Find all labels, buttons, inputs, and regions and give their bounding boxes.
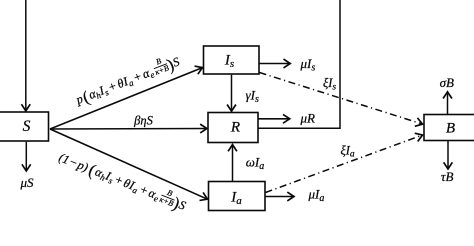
svg-text:R: R <box>230 120 240 136</box>
svg-text:σB: σB <box>440 75 454 90</box>
wire omega Ia from Ia up to R <box>232 144 234 181</box>
label p(ah Is + th Ia + ae B/(k+B))S <box>72 51 183 110</box>
wire from R right up to top (recovery loop) <box>259 0 341 128</box>
box Ia <box>209 182 266 211</box>
wire into S from top <box>25 0 27 111</box>
svg-text:μS: μS <box>19 175 34 190</box>
dash-dot wire xi Is from Is to B <box>260 73 423 125</box>
svg-text:B: B <box>446 120 455 136</box>
svg-text:τB: τB <box>441 169 454 184</box>
box R <box>208 113 258 143</box>
label (1-p)(ah Is + th Ia + ae B/(k+B))S <box>56 146 190 215</box>
svg-text:S: S <box>23 118 31 135</box>
box B <box>424 115 474 141</box>
svg-text:μR: μR <box>300 110 316 125</box>
box S <box>0 112 49 141</box>
wire S to Ia (diagonal down) <box>50 129 208 199</box>
wire gamma Is from Is down to R <box>231 75 233 112</box>
svg-text:μIs: μIs <box>300 56 316 74</box>
svg-text:γIs: γIs <box>246 87 259 105</box>
box Is <box>204 46 260 74</box>
svg-text:βηS: βηS <box>133 113 153 127</box>
svg-text:ξIa: ξIa <box>341 143 355 159</box>
wire S to R (horizontal) <box>50 128 207 131</box>
svg-text:ωIa: ωIa <box>246 154 265 172</box>
svg-text:μIa: μIa <box>308 186 325 204</box>
arrow sigma B up from B <box>447 92 449 115</box>
arrow muS out of S bottom <box>25 142 27 172</box>
arrow muIa <box>266 196 295 198</box>
svg-text:ξIs: ξIs <box>323 76 336 92</box>
wire S to Is (diagonal up) <box>50 68 203 130</box>
dash-dot wire xi Ia from Ia to B <box>266 135 423 193</box>
arrow tau B down from B <box>447 141 449 169</box>
arrow muIs <box>260 63 291 65</box>
arrow muR <box>259 118 291 120</box>
